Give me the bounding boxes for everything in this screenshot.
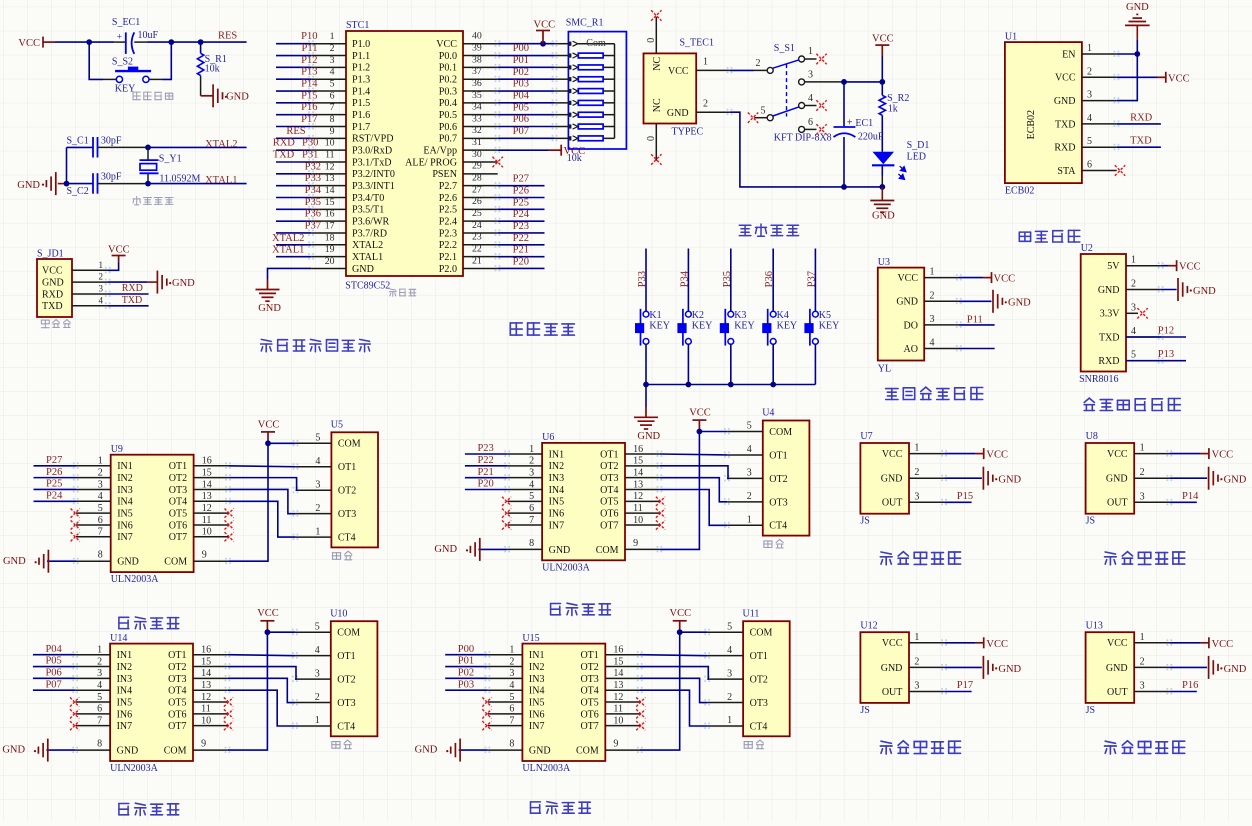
svg-text:OT3: OT3	[580, 674, 598, 685]
label 单片机	[389, 289, 415, 296]
svg-text:IN2: IN2	[549, 461, 565, 472]
wire K2 to bus	[687, 344, 689, 384]
svg-text:4: 4	[315, 645, 320, 656]
svg-text:2: 2	[98, 467, 103, 478]
svg-text:XTAL1: XTAL1	[272, 245, 304, 256]
svg-text:IN7: IN7	[117, 721, 133, 732]
svg-text:RXD: RXD	[122, 283, 143, 294]
svg-text:P2.2: P2.2	[439, 240, 457, 251]
svg-text:S_C2: S_C2	[67, 186, 89, 197]
svg-text:P15: P15	[301, 90, 317, 101]
svg-text:15: 15	[325, 197, 335, 208]
svg-text:VCC: VCC	[1212, 639, 1234, 650]
svg-text:6: 6	[98, 515, 103, 526]
label 语音识别模块	[1084, 398, 1180, 410]
wire U15 GND	[459, 749, 488, 751]
svg-text:P11: P11	[302, 43, 318, 54]
wire U9 OT4 to U5	[228, 501, 295, 537]
svg-text:4: 4	[315, 456, 320, 467]
svg-text:P36: P36	[764, 271, 775, 287]
svg-text:10: 10	[325, 138, 335, 149]
svg-text:P17: P17	[301, 114, 317, 125]
svg-text:6: 6	[509, 704, 514, 715]
svg-text:32: 32	[472, 125, 482, 136]
svg-text:JS: JS	[860, 705, 869, 716]
svg-text:P25: P25	[513, 197, 529, 208]
svg-text:2: 2	[747, 491, 752, 502]
svg-text:KFT DIP-8X8: KFT DIP-8X8	[774, 133, 832, 144]
svg-text:P1.3: P1.3	[352, 74, 370, 85]
svg-text:GND: GND	[1008, 298, 1031, 309]
svg-text:15: 15	[201, 656, 211, 667]
key ground bus	[646, 384, 815, 386]
svg-text:3: 3	[1140, 681, 1145, 692]
svg-text:IN1: IN1	[117, 461, 133, 472]
svg-text:XTAL2: XTAL2	[272, 233, 304, 244]
svg-text:OT3: OT3	[600, 473, 618, 484]
svg-text:26: 26	[472, 196, 482, 207]
no-connect U6 IN6	[502, 509, 511, 518]
capacitor EC1	[834, 126, 856, 128]
svg-text:K3: K3	[734, 310, 746, 321]
svg-text:U11: U11	[743, 608, 760, 619]
svg-text:OT2: OT2	[338, 486, 356, 497]
svg-text:EC1: EC1	[855, 118, 873, 129]
power port VCC (U13)	[1201, 637, 1209, 648]
svg-text:10: 10	[202, 527, 212, 538]
power port VCC (U7)	[975, 448, 983, 459]
switch S_S2 key	[116, 76, 122, 82]
svg-text:IN3: IN3	[117, 485, 133, 496]
svg-text:VCC: VCC	[1168, 73, 1190, 84]
svg-text:GND: GND	[415, 745, 438, 756]
svg-text:4: 4	[930, 338, 935, 349]
svg-text:PSEN: PSEN	[432, 169, 457, 180]
wire U6 OT3 to U4	[660, 478, 727, 502]
svg-text:OT3: OT3	[337, 698, 355, 709]
S_S1 switch arm 5-4	[773, 107, 800, 116]
svg-text:OT7: OT7	[168, 721, 186, 732]
svg-text:COM: COM	[769, 427, 792, 438]
svg-text:KEY: KEY	[734, 321, 755, 332]
svg-text:P04: P04	[45, 644, 62, 655]
wire VCC to U10 COM	[267, 631, 295, 633]
svg-text:VCC: VCC	[1107, 449, 1128, 460]
svg-text:ULN2003A: ULN2003A	[542, 562, 591, 573]
wire rail to S_R2	[881, 82, 883, 95]
svg-text:GND: GND	[1098, 285, 1120, 296]
svg-text:P34: P34	[679, 270, 690, 287]
wire K3 to bus	[730, 344, 732, 384]
svg-text:Com: Com	[586, 38, 606, 49]
svg-text:RXD: RXD	[1098, 356, 1119, 367]
svg-text:4: 4	[509, 680, 514, 691]
svg-text:2: 2	[1131, 279, 1136, 290]
svg-text:GND: GND	[872, 210, 895, 221]
svg-text:P02: P02	[513, 67, 529, 78]
svg-text:OT2: OT2	[168, 662, 186, 673]
svg-text:3: 3	[99, 284, 104, 294]
svg-text:COM: COM	[337, 628, 360, 639]
svg-text:33: 33	[472, 113, 482, 124]
svg-text:P20: P20	[513, 256, 529, 267]
wire S_EC1 to RES/S_R1	[134, 41, 147, 43]
svg-text:GND: GND	[352, 264, 374, 275]
svg-text:IN4: IN4	[549, 485, 565, 496]
svg-text:VCC: VCC	[1055, 73, 1076, 84]
svg-text:P2.3: P2.3	[439, 228, 457, 239]
no-connect pin30	[493, 157, 503, 167]
svg-text:3: 3	[529, 467, 534, 478]
svg-text:OT1: OT1	[338, 462, 356, 473]
svg-text:IN1: IN1	[549, 449, 565, 460]
wire U3 VCC	[959, 277, 983, 279]
svg-text:GND: GND	[1224, 664, 1247, 675]
svg-text:OT2: OT2	[750, 675, 768, 686]
svg-text:30pF: 30pF	[101, 135, 122, 146]
wire U1 RXD	[1117, 146, 1161, 148]
svg-text:4: 4	[98, 491, 103, 502]
svg-text:14: 14	[325, 185, 335, 196]
junction node (S_S2 right)	[168, 39, 174, 45]
svg-text:13: 13	[325, 173, 335, 184]
wire U12 VCC	[944, 642, 975, 644]
S_S1 pin6	[799, 126, 805, 132]
svg-text:RXD: RXD	[273, 138, 296, 149]
svg-text:P0.7: P0.7	[439, 134, 457, 145]
wire U8 GND	[1170, 477, 1208, 479]
svg-text:OT5: OT5	[600, 497, 618, 508]
svg-text:ULN2003A: ULN2003A	[110, 763, 159, 774]
led S_D1	[873, 152, 895, 164]
svg-text:RST/VPD: RST/VPD	[352, 134, 394, 145]
svg-text:6: 6	[97, 704, 102, 715]
wire TEC1 GND route	[730, 112, 883, 187]
svg-text:COM: COM	[164, 557, 187, 568]
svg-text:12: 12	[325, 161, 335, 172]
svg-text:IN1: IN1	[117, 650, 133, 661]
wire U15 OT4 to U11	[640, 690, 707, 726]
wire U7 OUT	[944, 501, 971, 503]
S_S1 pin5	[767, 115, 773, 121]
svg-text:OUT: OUT	[1107, 687, 1128, 698]
svg-text:2: 2	[315, 692, 320, 703]
svg-text:P04: P04	[513, 91, 530, 102]
svg-text:2: 2	[97, 656, 102, 667]
svg-text:U15: U15	[522, 633, 539, 644]
svg-text:2: 2	[330, 43, 335, 54]
uln2003a U15	[522, 644, 605, 761]
junction node (LED bottom)	[879, 184, 885, 190]
svg-text:1: 1	[808, 46, 813, 57]
svg-text:VCC: VCC	[882, 638, 903, 649]
no-connect U6 OT5	[656, 497, 665, 506]
svg-text:VCC: VCC	[670, 608, 692, 619]
svg-text:13: 13	[633, 479, 643, 490]
svg-text:8: 8	[529, 538, 534, 549]
svg-text:U13: U13	[1086, 620, 1103, 631]
wire RXD/P30 (pin10)	[276, 149, 311, 151]
wire U6 OT1 to U4	[660, 453, 727, 456]
wire VCC (pin40)	[498, 43, 555, 45]
svg-text:OT4: OT4	[168, 686, 186, 697]
svg-text:10: 10	[633, 515, 643, 526]
svg-text:OT5: OT5	[580, 697, 598, 708]
svg-text:30pF: 30pF	[101, 171, 122, 182]
wire U6 COM to VCC	[660, 432, 700, 550]
no-connect U15 OT6	[636, 709, 645, 718]
svg-text:GND: GND	[172, 278, 195, 289]
svg-text:1: 1	[1140, 632, 1145, 643]
svg-text:19: 19	[325, 244, 335, 255]
svg-text:P34: P34	[305, 185, 322, 196]
svg-text:GND: GND	[2, 745, 25, 756]
svg-text:P26: P26	[513, 185, 529, 196]
svg-text:5: 5	[747, 421, 752, 432]
svg-text:GND: GND	[226, 91, 249, 102]
svg-text:5: 5	[509, 692, 514, 703]
svg-text:NC: NC	[652, 98, 663, 112]
no-connect U14 IN7	[70, 721, 79, 730]
svg-text:1: 1	[315, 526, 320, 537]
svg-text:OT1: OT1	[600, 449, 618, 460]
svg-text:16: 16	[201, 645, 211, 656]
label 红外对射管 (U12)	[880, 741, 960, 754]
ground (U7)	[983, 467, 997, 490]
junction node (S_S2 left)	[86, 39, 92, 45]
svg-text:OUT: OUT	[882, 687, 903, 698]
svg-text:5: 5	[315, 621, 320, 632]
svg-text:16: 16	[633, 444, 643, 455]
svg-text:7: 7	[330, 102, 335, 113]
label 按键电路	[510, 323, 574, 335]
svg-text:STA: STA	[1057, 166, 1076, 177]
no-connect U1 STA	[1115, 165, 1125, 175]
svg-text:VCC: VCC	[108, 244, 130, 255]
svg-text:OT2: OT2	[337, 675, 355, 686]
svg-text:13: 13	[202, 491, 212, 502]
svg-text:11: 11	[613, 704, 623, 715]
svg-text:K5: K5	[819, 310, 831, 321]
ground (U2)	[1178, 278, 1192, 301]
svg-text:CT4: CT4	[769, 521, 787, 532]
svg-text:GND: GND	[42, 278, 64, 289]
socket U11	[743, 621, 790, 736]
wire left bus (crystal)	[66, 147, 68, 183]
svg-text:S_S2: S_S2	[112, 57, 133, 68]
svg-text:1: 1	[727, 715, 732, 726]
ground (mcu)	[256, 279, 280, 301]
svg-text:4: 4	[330, 67, 335, 78]
svg-text:P03: P03	[513, 79, 529, 90]
no-connect U9 IN7	[71, 532, 80, 541]
svg-text:2: 2	[529, 456, 534, 467]
S_S1 pin4	[799, 103, 805, 109]
svg-text:U10: U10	[330, 608, 347, 619]
svg-text:3: 3	[315, 479, 320, 490]
svg-text:P1.0: P1.0	[352, 39, 370, 50]
wire P33 drop	[645, 249, 647, 312]
no-connect U15 OT5	[636, 697, 645, 706]
key K4	[770, 311, 776, 317]
svg-text:CT4: CT4	[338, 533, 356, 544]
ground (U8)	[1209, 467, 1223, 490]
svg-text:IN6: IN6	[117, 709, 133, 720]
key K1	[643, 311, 649, 317]
svg-text:SMC_R1: SMC_R1	[566, 17, 604, 28]
svg-text:OT4: OT4	[580, 686, 598, 697]
svg-text:P01: P01	[513, 55, 529, 66]
svg-text:13: 13	[201, 680, 211, 691]
svg-text:GND: GND	[1193, 286, 1216, 297]
svg-text:14: 14	[201, 668, 211, 679]
svg-text:OT2: OT2	[769, 474, 787, 485]
svg-text:KEY: KEY	[777, 321, 798, 332]
wire U2 GND	[1161, 289, 1177, 291]
svg-text:U5: U5	[331, 419, 343, 430]
svg-text:IN4: IN4	[117, 686, 133, 697]
socket U4	[763, 421, 810, 536]
svg-text:2: 2	[914, 467, 919, 478]
svg-text:4: 4	[747, 444, 752, 455]
svg-text:P27: P27	[46, 455, 62, 466]
svg-text:IN7: IN7	[529, 721, 545, 732]
svg-text:5: 5	[315, 433, 320, 444]
svg-text:5: 5	[330, 79, 335, 90]
wire U9 OT2 to U5	[228, 478, 296, 491]
no-connect U9 IN5	[71, 509, 80, 518]
svg-text:TXD: TXD	[1055, 119, 1076, 130]
svg-text:KEY: KEY	[649, 321, 670, 332]
svg-text:8: 8	[330, 114, 335, 125]
svg-text:16: 16	[325, 209, 335, 220]
key K5	[813, 311, 819, 317]
svg-text:TXD: TXD	[1130, 136, 1152, 147]
svg-text:OT2: OT2	[169, 473, 187, 484]
svg-text:GND: GND	[434, 544, 457, 555]
svg-text:1: 1	[914, 632, 919, 643]
svg-text:7: 7	[98, 527, 103, 538]
svg-text:EA/Vpp: EA/Vpp	[423, 145, 457, 156]
power port VCC (U14)	[260, 621, 274, 632]
connector S_JD1 box	[37, 259, 72, 317]
svg-text:JS: JS	[1086, 516, 1095, 527]
wire TEC1 VCC to S_S1	[730, 69, 754, 71]
svg-text:P10: P10	[301, 31, 317, 42]
svg-text:5V: 5V	[1107, 261, 1120, 272]
svg-text:P2.7: P2.7	[439, 181, 457, 192]
svg-text:5: 5	[98, 503, 103, 514]
junction node (U6 VCC)	[697, 429, 703, 435]
wire U1 TXD	[1117, 123, 1161, 125]
ground (reset)	[213, 84, 227, 107]
wires P10-P17	[276, 43, 311, 45]
wire P20 (U6 IN4)	[465, 488, 508, 490]
label 红外对射管 (U8)	[1105, 552, 1185, 565]
socket U10	[331, 621, 378, 736]
svg-text:OT6: OT6	[580, 709, 598, 720]
svg-text:P11: P11	[967, 314, 983, 325]
svg-text:VCC: VCC	[882, 449, 903, 460]
svg-text:COM: COM	[596, 545, 619, 556]
resistor S_R1	[200, 42, 202, 53]
wire U9 COM to VCC	[228, 443, 268, 561]
wire S_C1 to XTAL2	[98, 146, 149, 148]
svg-text:IN5: IN5	[529, 697, 545, 708]
svg-text:TXD: TXD	[273, 150, 295, 161]
svg-text:VCC: VCC	[668, 66, 689, 77]
svg-text:ALE/ PROG: ALE/ PROG	[405, 157, 457, 168]
svg-text:KEY: KEY	[692, 321, 713, 332]
svg-text:OUT: OUT	[1107, 498, 1128, 509]
label 电源电路	[739, 224, 798, 236]
svg-text:P12: P12	[301, 55, 317, 66]
wire RES (pin9)	[276, 137, 311, 139]
svg-text:P23: P23	[477, 443, 493, 454]
svg-text:GND: GND	[1054, 96, 1076, 107]
svg-text:P3.2/INT0: P3.2/INT0	[352, 169, 395, 180]
svg-text:8: 8	[97, 739, 102, 750]
svg-text:P22: P22	[477, 455, 493, 466]
svg-text:P1.1: P1.1	[352, 51, 370, 62]
wire U13 GND	[1170, 666, 1208, 668]
wire U12 OUT	[944, 691, 971, 693]
junction node (crystal top)	[145, 145, 151, 151]
wire U2 TXD	[1126, 336, 1186, 338]
svg-text:CT4: CT4	[337, 721, 355, 732]
svg-text:15: 15	[613, 656, 623, 667]
wire XTAL2 row	[67, 146, 94, 148]
svg-text:4: 4	[529, 479, 534, 490]
svg-text:5: 5	[1087, 136, 1092, 147]
svg-text:U9: U9	[111, 444, 123, 455]
svg-text:P15: P15	[957, 491, 973, 502]
svg-text:VCC: VCC	[436, 39, 457, 50]
svg-text:22: 22	[472, 244, 482, 255]
svg-text:3: 3	[1131, 302, 1136, 313]
svg-text:P3.0/RxD: P3.0/RxD	[352, 145, 392, 156]
svg-text:P0.6: P0.6	[439, 122, 457, 133]
svg-text:25: 25	[472, 208, 482, 219]
svg-text:14: 14	[613, 668, 623, 679]
svg-text:1: 1	[330, 31, 335, 42]
wire K5 to bus	[814, 344, 816, 384]
svg-text:5: 5	[727, 621, 732, 632]
svg-text:3: 3	[914, 681, 919, 692]
svg-text:P22: P22	[513, 233, 529, 244]
svg-text:3: 3	[1140, 491, 1145, 502]
svg-text:VCC: VCC	[994, 274, 1016, 285]
svg-text:P3.4/T0: P3.4/T0	[352, 193, 384, 204]
power port VCC (U3)	[983, 272, 992, 283]
svg-text:OT1: OT1	[337, 651, 355, 662]
wire U9 OT1 to U5	[228, 465, 295, 468]
svg-text:P37: P37	[305, 220, 321, 231]
wire K4 to bus	[772, 344, 774, 384]
svg-text:P06: P06	[513, 114, 529, 125]
svg-text:GND: GND	[667, 108, 689, 119]
wire P06 (U14 IN3)	[33, 677, 76, 679]
wire P27 (U9 IN1)	[34, 465, 77, 467]
wire S_JD1 TXD	[108, 305, 149, 307]
svg-text:10: 10	[201, 715, 211, 726]
svg-text:6: 6	[808, 117, 813, 128]
svg-text:OT7: OT7	[169, 532, 187, 543]
svg-text:VCC: VCC	[897, 273, 918, 284]
svg-text:IN6: IN6	[549, 509, 565, 520]
svg-text:P07: P07	[45, 679, 61, 690]
svg-text:P2.5: P2.5	[439, 205, 457, 216]
